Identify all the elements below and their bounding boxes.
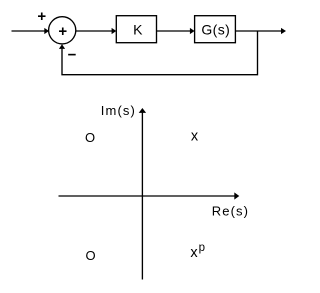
svg-text:−: − [68, 46, 77, 63]
svg-text:Im(s): Im(s) [101, 103, 136, 118]
wire: output of G(s) [235, 28, 286, 34]
wire: feedback path (tap down, across, up into summing junction) [62, 31, 258, 75]
svg-text:G(s): G(s) [201, 21, 230, 37]
wire: block K to block G(s) [157, 28, 195, 34]
svg-text:K: K [133, 21, 143, 37]
svg-text:p: p [199, 242, 205, 254]
axis: Im(s) vertical axis [139, 108, 146, 280]
block G(s) (plant) [195, 16, 236, 43]
svg-text:Re(s): Re(s) [212, 203, 249, 218]
svg-text:x: x [191, 128, 199, 144]
axis: Re(s) horizontal axis [59, 192, 240, 199]
summing junction circle [49, 17, 76, 44]
arrowhead: feedback into summing junction [59, 44, 65, 49]
svg-text:+: + [37, 8, 46, 25]
svg-text:O: O [85, 248, 95, 263]
svg-text:+: + [58, 23, 67, 40]
svg-text:x: x [190, 245, 198, 261]
wire: summing junction to block K [76, 28, 116, 34]
svg-text:O: O [85, 130, 95, 145]
wire: input signal into summing junction [12, 28, 50, 34]
block K (gain) [116, 16, 156, 43]
